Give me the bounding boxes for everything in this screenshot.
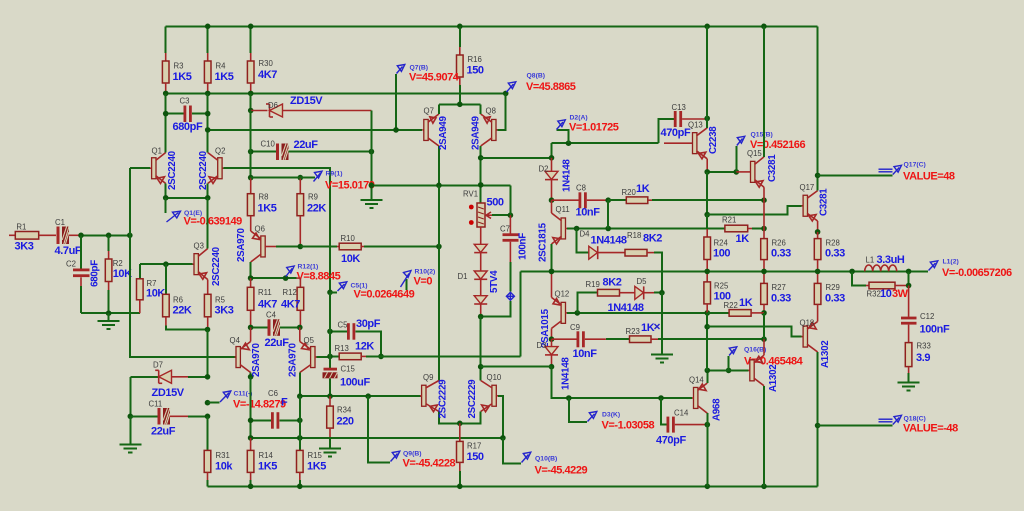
svg-text:2SC2229: 2SC2229 (438, 379, 449, 419)
resistor R14 (247, 438, 277, 486)
svg-text:V=1.01725: V=1.01725 (569, 122, 619, 134)
svg-text:D5: D5 (637, 277, 648, 286)
capacitor C11 (128, 377, 211, 438)
transistor Q3 (140, 198, 222, 294)
svg-text:3.3uH: 3.3uH (877, 254, 905, 266)
probe R9(1) (314, 171, 375, 192)
resistor R22 (707, 297, 764, 316)
wire emitter rail (166, 197, 208, 199)
svg-text:C5: C5 (338, 321, 349, 330)
resistor R4 (204, 26, 233, 93)
svg-text:R13: R13 (335, 344, 349, 353)
svg-text:V=-0.00657206: V=-0.00657206 (942, 267, 1012, 279)
node bottom rail dots (248, 484, 254, 490)
wire +48 output line (815, 173, 821, 179)
probe L1(2) (929, 259, 1013, 280)
probe C5(1) (327, 282, 414, 301)
wire Q1 collector (165, 114, 167, 153)
probe R10(2) (401, 269, 436, 291)
svg-text:L1: L1 (866, 256, 875, 265)
svg-text:R21: R21 (722, 216, 736, 225)
svg-text:R17: R17 (467, 442, 481, 451)
svg-text:D6: D6 (268, 101, 278, 110)
svg-text:Q9(B): Q9(B) (403, 451, 422, 458)
svg-text:4.7uF: 4.7uF (55, 245, 82, 257)
svg-text:1K5: 1K5 (173, 71, 192, 83)
svg-text:10nF: 10nF (573, 348, 598, 360)
svg-text:R31: R31 (216, 451, 230, 460)
transistor Q12 2SA1015 (540, 269, 577, 348)
resistor R11 (247, 278, 277, 327)
svg-text:C12: C12 (920, 312, 934, 321)
wire Q11 base line y228 (577, 228, 725, 230)
svg-text:A1302: A1302 (768, 364, 779, 392)
svg-text:680pF: 680pF (90, 260, 101, 287)
svg-text:2SC2240: 2SC2240 (211, 246, 222, 286)
resistor R25 (704, 271, 731, 313)
wire Q18 base jog (707, 327, 801, 337)
svg-text:Q5: Q5 (304, 336, 315, 345)
svg-text:Q2: Q2 (215, 147, 225, 156)
svg-text:Q17(C): Q17(C) (904, 162, 926, 169)
capacitor C12 (901, 286, 950, 343)
svg-text:1K: 1K (736, 233, 750, 245)
svg-text:Q16(B): Q16(B) (744, 347, 766, 354)
svg-text:D3: D3 (537, 341, 547, 350)
svg-text:F: F (281, 397, 288, 409)
svg-text:10K: 10K (341, 253, 360, 265)
svg-text:4K7: 4K7 (258, 299, 277, 311)
transistor Q17 C3281 (800, 26, 830, 234)
netlabel VALUE=-48 (879, 415, 959, 434)
node rail93 dots (163, 91, 169, 97)
svg-text:1K: 1K (739, 297, 753, 309)
diode D3 1N4148 (481, 339, 572, 390)
svg-text:Q13: Q13 (688, 121, 703, 130)
svg-text:2SA949: 2SA949 (471, 116, 482, 150)
svg-text:C15: C15 (341, 365, 356, 374)
resistor R2 (105, 235, 132, 313)
capacitor C14 (656, 395, 710, 446)
probe R12(1) (286, 264, 341, 283)
svg-text:1K: 1K (641, 322, 655, 334)
diode D2 1N4148 (539, 158, 573, 203)
wire Q12 base line y313 (577, 312, 707, 314)
transistor Q14 A968 (689, 370, 723, 486)
svg-text:1K5: 1K5 (258, 203, 277, 215)
wire Q13 emitter to Q15 base (707, 171, 736, 173)
ground R18 D5 (651, 355, 673, 363)
resistor R29 (814, 271, 845, 317)
svg-text:0.33: 0.33 (825, 293, 845, 305)
wire R4 column to Q7 base line (208, 129, 396, 131)
capacitor C10 (248, 139, 374, 160)
resistor R7 (137, 264, 166, 313)
transistor Q5 (288, 327, 331, 396)
svg-text:30pF: 30pF (356, 318, 381, 330)
svg-text:Q15: Q15 (747, 149, 762, 158)
wire R14 R15 top line y438 (251, 437, 503, 439)
ground D7 C11 (119, 416, 141, 452)
wire R11 R12 top line (251, 277, 297, 279)
svg-text:D2(A): D2(A) (570, 115, 588, 122)
transistor Q15 C3281 (736, 26, 778, 200)
transistor Q8 2SA949 (471, 93, 506, 203)
svg-text:C2: C2 (66, 260, 76, 269)
capacitor C8 (552, 184, 612, 219)
diode D6 zener (248, 93, 372, 117)
node top rail dots (205, 24, 211, 30)
ground R34 (319, 448, 341, 456)
svg-text:8K2: 8K2 (643, 233, 662, 245)
svg-text:R29: R29 (826, 283, 840, 292)
wire bias column R25 to Q14 (706, 313, 708, 371)
origin marker diamond (506, 292, 514, 300)
svg-text:22uF: 22uF (265, 337, 290, 349)
svg-text:2SA949: 2SA949 (438, 116, 449, 150)
svg-text:V=15.0179: V=15.0179 (325, 180, 375, 192)
resistor R3 (162, 26, 191, 93)
transistor Q16 A1302 (705, 339, 780, 486)
svg-text:D4: D4 (580, 230, 591, 239)
wire output rail corner to R13 line and D3 (520, 271, 522, 356)
probe Q1(E) (166, 198, 242, 228)
node input junctions (78, 233, 84, 239)
wire Q8 collector to D2 (481, 157, 552, 159)
svg-text:R10(2): R10(2) (415, 269, 436, 276)
svg-text:1K5: 1K5 (307, 461, 326, 473)
svg-text:C8: C8 (576, 184, 586, 193)
svg-text:2SA970: 2SA970 (251, 343, 262, 377)
svg-text:L1(2): L1(2) (943, 259, 959, 266)
svg-text:R14: R14 (259, 451, 274, 460)
svg-text:R15: R15 (308, 451, 323, 460)
svg-text:0.33: 0.33 (771, 293, 791, 305)
transistor Q7 2SA949 (393, 104, 449, 185)
probe Q9(B) (368, 396, 455, 469)
svg-text:R32: R32 (867, 290, 881, 299)
svg-text:Q10(B): Q10(B) (535, 456, 557, 463)
wire input down to Q4 base (130, 235, 237, 357)
wire D2 top line y143 (552, 142, 659, 144)
wire VAS to C7 (509, 185, 511, 215)
svg-text:R22: R22 (724, 301, 738, 310)
svg-text:3W: 3W (892, 288, 909, 300)
svg-text:3K3: 3K3 (215, 305, 234, 317)
svg-text:10nF: 10nF (576, 207, 601, 219)
resistor R5 (204, 294, 233, 329)
svg-text:R11: R11 (258, 288, 272, 297)
svg-text:VALUE=-48: VALUE=-48 (903, 423, 958, 435)
wire Q5 collector line y396 (300, 395, 422, 397)
svg-text:2SC2229: 2SC2229 (467, 379, 478, 419)
svg-text:R33: R33 (917, 342, 931, 351)
svg-text:Q3: Q3 (194, 242, 204, 251)
svg-text:Q6: Q6 (255, 225, 265, 234)
svg-text:1N4148: 1N4148 (591, 235, 627, 247)
svg-text:ZD15V: ZD15V (152, 387, 185, 399)
wire C2/R2 ground line (81, 312, 140, 314)
resistor R31 (204, 416, 233, 486)
svg-text:0.33: 0.33 (771, 248, 791, 260)
svg-text:Q18(C): Q18(C) (904, 416, 926, 423)
probe Q10(B) (500, 435, 587, 476)
svg-text:2SC2240: 2SC2240 (167, 150, 178, 190)
node Q6 base R9 R10 (298, 244, 304, 250)
svg-text:V=45.8865: V=45.8865 (526, 81, 576, 93)
svg-text:3.9: 3.9 (916, 352, 930, 364)
node output rail dots (549, 269, 555, 275)
svg-text:C1: C1 (55, 218, 65, 227)
svg-text:C11: C11 (149, 400, 163, 409)
svg-text:V=-14.8279: V=-14.8279 (233, 399, 286, 411)
wire VAS node line y185 (371, 184, 510, 186)
resistor R30 (247, 26, 277, 93)
transistor Q11 2SC1815 (538, 200, 577, 271)
ground mid (D6/C10) (360, 185, 382, 208)
svg-text:V=8.8845: V=8.8845 (297, 271, 341, 283)
capacitor C1 (55, 218, 82, 257)
svg-text:R28: R28 (826, 239, 840, 248)
svg-text:470pF: 470pF (656, 435, 686, 447)
probe C11(-) (205, 391, 286, 411)
svg-text:1N4148: 1N4148 (561, 357, 572, 390)
svg-text:2SC1815: 2SC1815 (538, 222, 549, 262)
resistor R24 (704, 215, 731, 272)
svg-text:R6: R6 (173, 296, 183, 305)
wire top rail +supply (166, 25, 818, 27)
diode D4 1N4148 (577, 229, 627, 260)
transistor Q9 2SC2229 (420, 373, 460, 423)
svg-text:R5: R5 (215, 296, 226, 305)
svg-text:C3: C3 (180, 97, 190, 106)
diode D5 1N4148 (608, 277, 665, 314)
resistor R34 (327, 396, 354, 448)
wire R27 bottom to Q16 emitter (763, 313, 765, 339)
svg-text:Q18: Q18 (800, 319, 815, 328)
svg-text:1N4148: 1N4148 (562, 159, 573, 192)
resistor R18 (625, 231, 662, 293)
svg-text:Q4: Q4 (230, 336, 241, 345)
svg-text:R27: R27 (772, 283, 786, 292)
wires-main (166, 26, 928, 486)
wire D3 to Q14 base (552, 367, 693, 398)
svg-text:680pF: 680pF (173, 121, 203, 133)
svg-text:500: 500 (487, 197, 504, 209)
node Q8 collector dots (478, 155, 484, 161)
svg-text:C13: C13 (672, 103, 686, 112)
resistor R21 (722, 216, 767, 246)
resistor R32 (852, 271, 911, 300)
capacitor C7 (500, 215, 529, 291)
svg-text:3K3: 3K3 (15, 241, 34, 253)
transistor Q1 (130, 147, 178, 191)
svg-text:C4: C4 (266, 311, 277, 320)
svg-text:1K5: 1K5 (215, 71, 234, 83)
resistor R27 (761, 271, 791, 315)
svg-text:4K7: 4K7 (258, 69, 277, 81)
svg-text:V=45.9074: V=45.9074 (409, 72, 460, 84)
svg-text:10k: 10k (215, 461, 233, 473)
svg-text:Q7(B): Q7(B) (410, 65, 429, 72)
svg-text:V=0.0264649: V=0.0264649 (354, 289, 415, 301)
svg-text:R12(1): R12(1) (298, 264, 319, 271)
wire Q2 feedback column C5 C15 (329, 292, 331, 368)
probe D3(K) (566, 395, 655, 431)
resistor R15 (297, 450, 327, 486)
resistor R9 (297, 175, 326, 247)
resistor R13 (327, 341, 520, 360)
wire R18 D5 ground column (661, 293, 663, 355)
probe Q7(B) (396, 65, 460, 130)
svg-text:V=0: V=0 (414, 276, 433, 288)
svg-text:12K: 12K (355, 341, 374, 353)
probe Q8(B) (507, 73, 576, 94)
svg-text:Q8: Q8 (486, 107, 496, 116)
svg-text:R19: R19 (586, 280, 600, 289)
svg-text:22K: 22K (307, 203, 326, 215)
capacitor C15 (323, 365, 371, 397)
svg-text:R25: R25 (714, 282, 729, 291)
wire output rail y271 (521, 270, 928, 272)
svg-text:R9: R9 (308, 193, 318, 202)
resistor R26 (761, 200, 791, 271)
inductor L1 (865, 254, 905, 271)
wire C7 bottom to D1 bottom (481, 301, 511, 317)
capacitor C6 (248, 377, 303, 438)
svg-text:R30: R30 (259, 59, 274, 68)
svg-text:ZD15V: ZD15V (290, 95, 323, 107)
resistor R1 (9, 223, 56, 253)
svg-text:Q9: Q9 (423, 373, 433, 382)
svg-text:22uF: 22uF (151, 426, 176, 438)
svg-text:Q10: Q10 (487, 373, 502, 382)
svg-text:C10: C10 (261, 140, 276, 149)
netlabel VALUE=48 (879, 162, 955, 183)
svg-text:A1302: A1302 (820, 340, 831, 368)
wire Q2 collector (207, 114, 209, 153)
svg-text:150: 150 (467, 65, 484, 77)
svg-text:470pF: 470pF (661, 127, 691, 139)
svg-text:R1: R1 (16, 223, 26, 232)
svg-text:10: 10 (880, 288, 892, 300)
wire feedback column input to Q1 base (129, 168, 131, 235)
svg-text:C14: C14 (674, 409, 689, 418)
svg-text:RV1: RV1 (463, 190, 478, 199)
svg-text:C9: C9 (570, 323, 580, 332)
svg-text:D1: D1 (458, 272, 468, 281)
svg-text:C3281: C3281 (819, 188, 830, 216)
wire input node (79, 234, 130, 236)
svg-text:2SA970: 2SA970 (236, 228, 247, 262)
resistor R20 (608, 183, 767, 204)
svg-text:100: 100 (713, 248, 730, 260)
svg-text:R10: R10 (341, 234, 356, 243)
svg-text:V=-45.4228: V=-45.4228 (403, 458, 456, 470)
probe D2(A) (557, 115, 619, 144)
ground input (98, 313, 120, 329)
svg-text:D3(K): D3(K) (602, 412, 620, 419)
resistor R17 (457, 421, 484, 487)
svg-text:R26: R26 (772, 239, 786, 248)
svg-text:5TV4: 5TV4 (489, 270, 500, 293)
svg-text:V=-1.03058: V=-1.03058 (602, 420, 655, 432)
resistor R28 (814, 232, 845, 272)
wire Q1 emitter (165, 184, 167, 198)
svg-text:R18: R18 (627, 231, 641, 240)
wire Q5 col down (299, 396, 301, 450)
marker small blue x (655, 324, 660, 329)
probe Q15(B) (736, 132, 805, 172)
svg-text:Q11: Q11 (556, 205, 570, 214)
svg-text:V=-45.4229: V=-45.4229 (535, 465, 588, 477)
svg-text:R16: R16 (468, 55, 482, 64)
resistor R10 (300, 234, 439, 265)
svg-text:R2: R2 (113, 259, 123, 268)
capacitor C4 (248, 311, 303, 350)
wire Q7 collector column down to Q9 (438, 185, 440, 380)
resistor R19 (577, 277, 634, 313)
capacitor C2 (66, 235, 101, 313)
transistor Q4 (230, 327, 263, 379)
ground R33 (898, 383, 920, 391)
svg-text:22K: 22K (173, 305, 192, 317)
resistor R33 (905, 342, 931, 383)
diode D7 zener (130, 361, 210, 400)
wire D6 column (250, 111, 252, 178)
svg-text:R8: R8 (259, 193, 269, 202)
transistor Q18 A1302 (800, 317, 832, 486)
resistor R23 (606, 322, 767, 343)
svg-text:C7: C7 (500, 225, 510, 234)
probe Q16(B) (726, 347, 804, 374)
svg-text:4K7: 4K7 (281, 299, 300, 311)
svg-text:220: 220 (337, 416, 354, 428)
svg-text:Q8(B): Q8(B) (527, 73, 546, 80)
resistor R6 (163, 264, 208, 329)
transistor Q6 (236, 225, 300, 279)
wire -48 output line (815, 423, 821, 429)
svg-text:150: 150 (467, 451, 484, 463)
wire R5R6 down to D7 line (207, 330, 209, 377)
capacitor C13 (659, 103, 710, 143)
wire Q7 Q8 emitters (439, 103, 481, 105)
wire rail y93 (166, 92, 506, 94)
svg-text:Q17: Q17 (800, 183, 815, 192)
svg-text:Q12: Q12 (555, 290, 570, 299)
svg-text:C11(-): C11(-) (234, 391, 253, 398)
capacitor C5 (327, 318, 384, 359)
svg-text:100nF: 100nF (518, 233, 529, 260)
potentiometer RV1 (463, 190, 513, 228)
resistor R16 (457, 26, 484, 104)
wire bottom rail (208, 485, 818, 487)
transistor Q13 C2238 (664, 26, 719, 172)
svg-text:Q7: Q7 (424, 107, 434, 116)
svg-text:0.33: 0.33 (825, 248, 845, 260)
svg-text:Q1: Q1 (152, 147, 162, 156)
svg-text:Q15(B): Q15(B) (751, 132, 773, 139)
svg-text:1N4148: 1N4148 (608, 302, 644, 314)
capacitor C9 (552, 323, 606, 360)
svg-text:R24: R24 (714, 239, 729, 248)
svg-text:R23: R23 (626, 327, 640, 336)
svg-text:R3: R3 (174, 62, 184, 71)
node R5 R6 junction (205, 327, 211, 333)
svg-text:C3281: C3281 (767, 154, 778, 182)
svg-text:8K2: 8K2 (603, 277, 622, 289)
svg-text:1K: 1K (636, 183, 650, 195)
